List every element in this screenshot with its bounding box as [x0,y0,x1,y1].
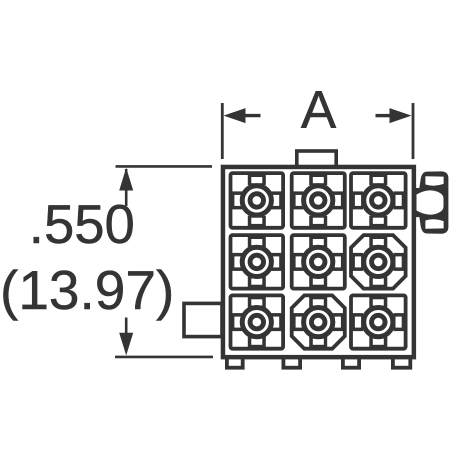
pin cavity row2 col1 outer circle [242,247,271,276]
dimension label (13.97) [0,259,174,321]
extension line left of dimension A [221,103,224,159]
extension line bottom of dimension .550 [115,356,213,359]
pin cavity row1 col3 outer circle [364,186,393,215]
pin cavity row1 col3 outline [351,173,406,228]
dimension A left arrow [224,108,261,123]
pin cavity row3 col2 keying bridges [291,295,345,349]
pin cavity row3 col1 outer circle [242,308,271,337]
pin cavity row3 col3 outline [351,295,406,348]
pin cavity row3 col3 outer circle [364,308,393,337]
pin cavity row2 col2 outline [292,235,345,289]
pin cavity row2 col2 keying bridges [291,235,345,289]
bottom standoff foot 2 [283,357,300,368]
pin cavity row2 col3 keying bridges [351,235,406,289]
pin cavity row2 col1 tab windows [234,239,279,285]
pin cavity row1 col1 outline [231,173,284,228]
dimension A right arrow [376,108,412,123]
svg-text:(13.97): (13.97) [0,259,174,321]
dimension .550 down arrow [119,318,133,356]
pin cavity row2 col3 outer circle [364,247,393,276]
pin cavity row2 col2 outer circle [304,247,333,276]
pin cavity row2 col2 contact ring [311,255,325,269]
pin cavity row3 col2 outline [292,295,345,348]
pin cavity row3 col2 tab windows [296,299,341,345]
connector body outline [223,167,414,357]
svg-text:A: A [301,81,337,140]
pin cavity row2 col3 outline [351,235,406,289]
pin cavity row3 col3 contact ring [372,315,386,329]
dimension label A [301,81,337,140]
pin cavity row3 col2 contact ring [311,315,325,329]
dimension label .550 [29,194,135,255]
pin cavity row2 col1 keying bridges [230,235,283,289]
bottom standoff foot 3 [343,357,359,368]
pin cavity row2 col2 tab windows [296,239,341,285]
pin cavity row3 col1 tab windows [234,299,279,345]
extension line right of dimension A [412,103,415,159]
svg-text:.550: .550 [29,194,135,255]
pin cavity row2 col1 contact ring [250,255,264,269]
pin cavity row1 col2 tab windows [296,177,341,224]
dimension .550 up arrow [119,168,133,206]
pin cavity row1 col1 contact ring [250,194,264,208]
pin cavity row1 col1 tab windows [234,177,279,224]
pin cavity row2 col3 contact ring [372,255,386,269]
pin cavity row1 col1 keying bridges [230,173,283,229]
pin cavity row3 col3 tab windows [355,299,402,345]
right panel latch [412,171,448,233]
pin cavity row1 col1 outer circle [242,186,271,215]
pin cavity row1 col2 outline [292,173,345,228]
pin cavity row2 col3 tab windows [355,239,402,285]
pin cavity row3 col1 keying bridges [230,295,283,349]
pin cavity row1 col3 keying bridges [351,173,406,229]
extension line top of dimension .550 [116,165,213,168]
bottom standoff foot 1 [227,357,243,368]
pin cavity row3 col2 outer circle [304,308,333,337]
top polarizing tab [297,151,336,167]
pin cavity row1 col3 contact ring [372,194,386,208]
pin cavity row1 col3 tab windows [355,177,402,224]
pin cavity row1 col2 keying bridges [291,173,345,229]
pin cavity row2 col1 outline [231,235,284,289]
pin cavity row3 col3 keying bridges [351,295,406,349]
pin cavity row1 col2 contact ring [311,194,325,208]
pin cavity row3 col1 contact ring [250,315,264,329]
left mounting tab [184,303,222,336]
pin cavity row1 col2 outer circle [304,186,333,215]
pin cavity row3 col1 outline [231,295,284,348]
bottom standoff foot 4 [393,357,410,368]
